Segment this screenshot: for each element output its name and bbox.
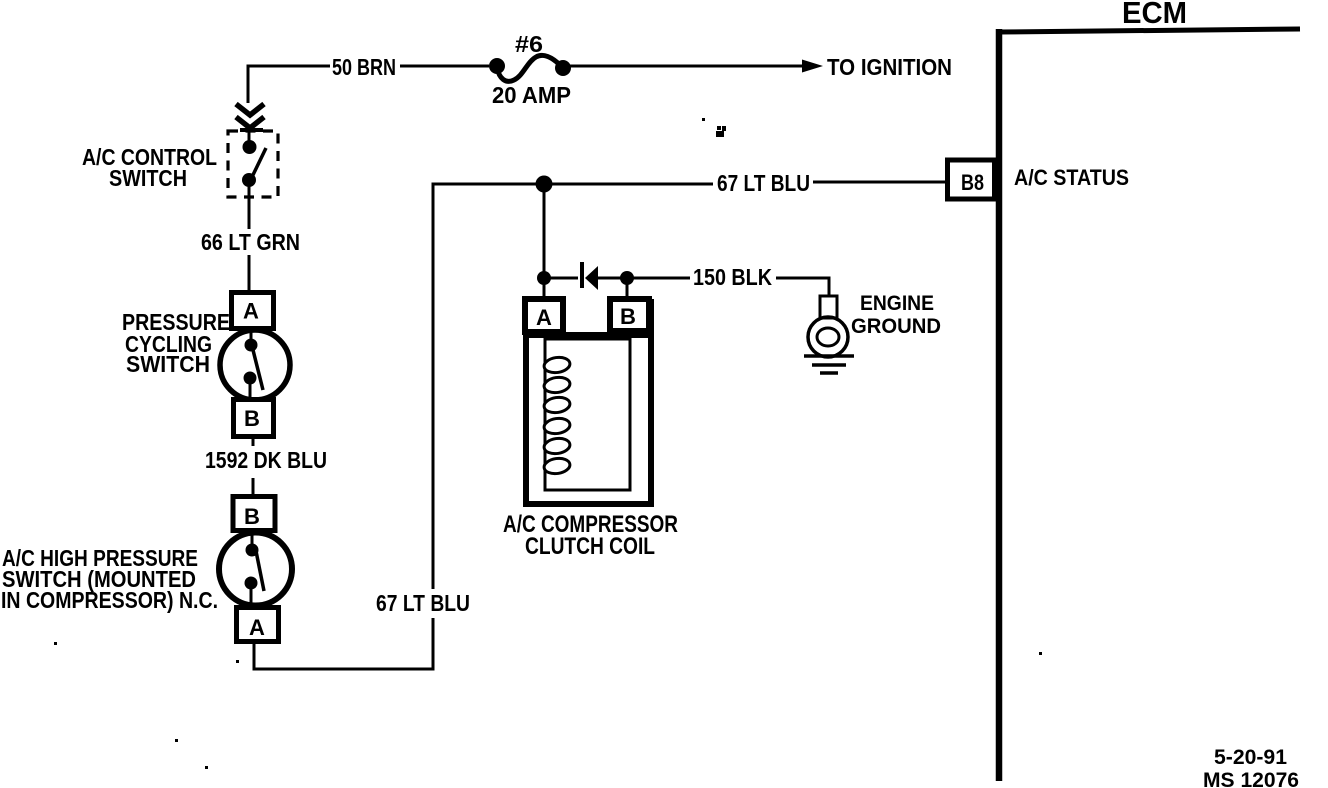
svg-text:TO IGNITION: TO IGNITION xyxy=(827,54,952,80)
svg-text:SWITCH: SWITCH xyxy=(126,351,210,377)
svg-text:SWITCH: SWITCH xyxy=(109,165,187,191)
svg-text:50 BRN: 50 BRN xyxy=(332,54,396,80)
svg-text:A: A xyxy=(243,299,259,324)
svg-text:B8: B8 xyxy=(961,170,984,195)
svg-text:A: A xyxy=(536,305,552,330)
svg-text:66 LT GRN: 66 LT GRN xyxy=(201,229,300,255)
svg-text:67 LT BLU: 67 LT BLU xyxy=(376,590,470,616)
svg-text:A: A xyxy=(249,615,265,640)
svg-text:B: B xyxy=(244,406,260,431)
svg-text:GROUND: GROUND xyxy=(851,315,941,338)
svg-text:B: B xyxy=(620,304,636,329)
svg-text:5-20-91: 5-20-91 xyxy=(1214,746,1287,769)
svg-text:B: B xyxy=(244,504,260,529)
svg-text:A/C STATUS: A/C STATUS xyxy=(1014,165,1129,190)
svg-text:ENGINE: ENGINE xyxy=(860,292,934,315)
svg-text:150 BLK: 150 BLK xyxy=(693,264,772,290)
svg-text:ECM: ECM xyxy=(1122,0,1187,30)
svg-text:67 LT BLU: 67 LT BLU xyxy=(717,170,810,196)
svg-text:#6: #6 xyxy=(515,31,543,57)
svg-text:1592 DK BLU: 1592 DK BLU xyxy=(205,447,327,473)
svg-text:20 AMP: 20 AMP xyxy=(492,82,571,108)
svg-text:MS 12076: MS 12076 xyxy=(1203,769,1299,788)
svg-text:CLUTCH COIL: CLUTCH COIL xyxy=(525,533,655,560)
svg-text:IN COMPRESSOR) N.C.: IN COMPRESSOR) N.C. xyxy=(1,587,218,613)
